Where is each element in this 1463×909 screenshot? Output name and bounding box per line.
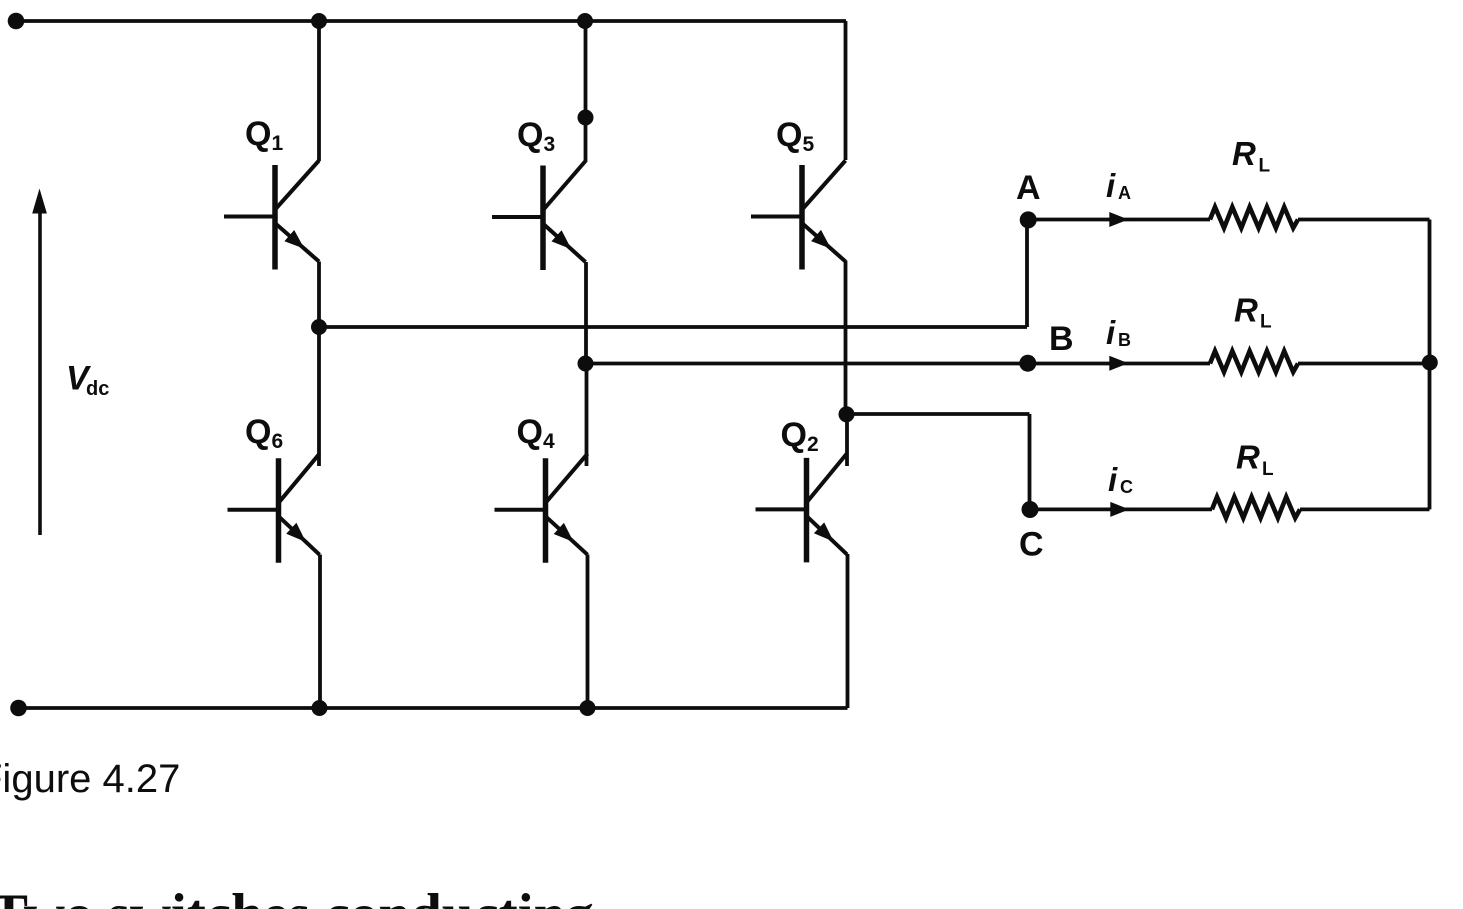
wire phase A riser	[1025, 220, 1029, 327]
wire resistor A to right bus	[1298, 218, 1430, 222]
bottom rail left terminal dot	[10, 700, 27, 717]
svg-text:i: i	[1108, 461, 1118, 498]
svg-text:L: L	[1262, 459, 1274, 480]
svg-text:R: R	[1232, 135, 1256, 172]
svg-text:Q4: Q4	[517, 413, 555, 453]
resistor RL phase A	[1210, 207, 1298, 228]
wire node to Q2 collector	[845, 414, 849, 466]
heading Two switches conducting (cut off)	[0, 882, 594, 909]
wire Q5 emitter to node	[844, 261, 848, 415]
top rail left terminal dot	[8, 13, 25, 30]
resistor RL phase C	[1212, 497, 1300, 518]
transistor Q3	[492, 161, 586, 270]
transistor Q2	[756, 453, 848, 562]
wire bottom DC rail	[19, 706, 848, 710]
node C dot	[1022, 501, 1039, 518]
junction dot right bus node B	[1422, 355, 1438, 371]
svg-text:Q1: Q1	[245, 115, 283, 155]
transistor Q4	[495, 454, 588, 563]
node dot leg3 midpoint	[839, 406, 855, 422]
transistor Q6	[228, 454, 320, 563]
wire Q6 emitter to bottom rail	[318, 555, 322, 709]
svg-text:A: A	[1118, 183, 1131, 203]
svg-text:C: C	[1120, 477, 1133, 497]
svg-text:i: i	[1106, 314, 1116, 351]
wire Q5 collector	[844, 21, 848, 160]
wire Q3 emitter to node	[584, 262, 588, 364]
junction dot top rail / Q3 collector	[577, 13, 593, 29]
wire resistor C to right bus	[1300, 507, 1430, 511]
node dot leg2 midpoint	[578, 356, 594, 372]
wire phase C dropper	[1028, 414, 1032, 510]
svg-text:L: L	[1259, 156, 1271, 177]
resistor RL phase B	[1210, 351, 1298, 372]
junction dot on Q3 collector	[578, 110, 594, 126]
svg-text:Q3: Q3	[517, 116, 555, 156]
wire resistor B to right bus	[1298, 362, 1430, 366]
current arrow iB	[1109, 356, 1128, 371]
transistor Q5	[751, 161, 846, 270]
junction dot bottom rail / Q6 emitter	[312, 700, 328, 716]
svg-text:Q2: Q2	[781, 416, 819, 456]
svg-text:R: R	[1236, 439, 1260, 476]
wire Q3 collector	[584, 21, 588, 162]
wire phase A horizontal	[319, 325, 1027, 329]
wire Q2 emitter to bottom rail	[846, 554, 850, 708]
junction dot top rail / Q1 collector	[311, 13, 327, 29]
node B dot	[1019, 355, 1036, 372]
svg-text:C: C	[1019, 526, 1044, 564]
Vdc source arrow	[32, 189, 47, 536]
node dot leg1 midpoint	[311, 319, 327, 335]
svg-text:A: A	[1016, 169, 1041, 207]
svg-text:Q5: Q5	[776, 116, 814, 156]
wire phase B horizontal	[586, 362, 1211, 366]
caption Figure 4.27	[0, 757, 180, 802]
node A dot	[1020, 211, 1037, 228]
svg-text:Q6: Q6	[245, 413, 283, 453]
wire node to Q6 collector	[317, 327, 321, 466]
svg-text:i: i	[1106, 167, 1116, 204]
transistor Q1	[224, 161, 319, 270]
wire top DC rail	[16, 19, 846, 23]
svg-text:B: B	[1118, 330, 1131, 350]
wire node A to resistor	[1028, 218, 1210, 222]
current arrow iC	[1110, 502, 1129, 517]
wire Q4 emitter to bottom rail	[586, 555, 590, 709]
junction dot bottom rail / Q4 emitter	[580, 700, 596, 716]
wire node C to resistor	[1030, 507, 1212, 511]
wire right load bus	[1428, 220, 1432, 510]
wire phase C horizontal	[847, 412, 1030, 416]
svg-text:B: B	[1049, 320, 1074, 358]
wire Q1 emitter to node	[317, 262, 321, 328]
svg-text:L: L	[1260, 312, 1272, 333]
svg-text:R: R	[1234, 291, 1258, 328]
svg-text:dc: dc	[86, 378, 109, 400]
wire Q1 collector	[317, 21, 321, 161]
wire node to Q4 collector	[585, 364, 589, 467]
current arrow iA	[1109, 212, 1128, 227]
